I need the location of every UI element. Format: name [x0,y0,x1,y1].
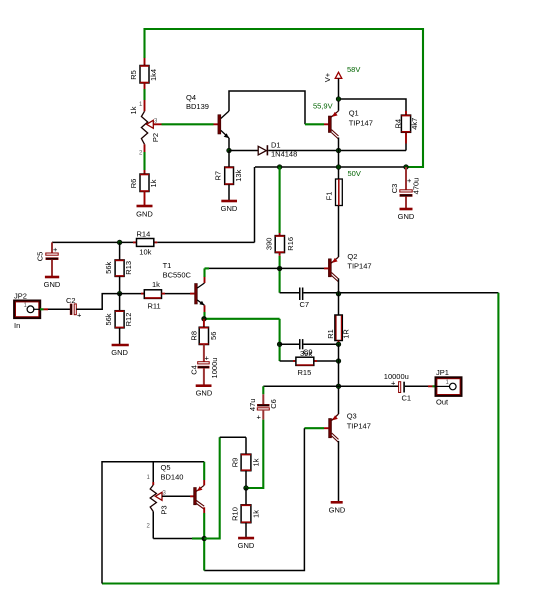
wire 50V rail [255,166,406,168]
node T1 emitter [202,317,207,322]
svg-text:10k: 10k [139,248,151,257]
wire C7 row [280,292,499,294]
svg-text:+: + [257,413,262,422]
svg-text:F1: F1 [325,192,334,201]
svg-text:R12: R12 [124,313,133,327]
transistor Q5 BD140 [161,463,205,509]
ground under R7 [221,201,238,213]
svg-text:Q5: Q5 [161,463,171,472]
ground under C5 [44,277,61,289]
svg-text:T1: T1 [163,261,172,270]
svg-text:+: + [53,245,58,254]
wire P3 bottom [153,512,204,539]
svg-text:1k: 1k [152,280,160,289]
svg-text:58V: 58V [347,65,360,74]
fuse F1 [325,179,343,206]
wire T1 emitter down [204,305,206,319]
capacitor C3 [390,167,421,208]
wire P2 wiper to Q4 base [162,123,219,125]
wire R15 row [280,360,339,362]
ground under R6 [136,206,153,219]
svg-text:C3: C3 [390,184,399,194]
svg-text:R14: R14 [137,230,151,239]
svg-text:GND: GND [44,280,61,289]
svg-text:R8: R8 [190,331,199,341]
svg-text:R11: R11 [148,302,161,311]
supply symbol V+ [323,72,342,82]
wire output row [263,385,435,387]
svg-text:Q4: Q4 [186,93,196,102]
svg-text:C6: C6 [269,399,278,409]
resistor R12 [104,294,133,344]
resistor R14 [137,230,154,257]
svg-text:470u: 470u [412,178,421,195]
node Q5 collector [202,536,207,541]
svg-text:1k: 1k [252,510,261,518]
wire P3 wiper to Q5 base [162,495,194,497]
wire R16 column green [279,167,281,236]
svg-text:GND: GND [111,348,128,357]
svg-text:55,9V: 55,9V [313,102,333,111]
transistor Q2 TIP147 [328,252,371,282]
svg-text:R16: R16 [286,237,295,251]
node T1 base divider [117,291,122,296]
node R15 right [336,359,341,364]
node V+ junction [336,97,341,102]
resistor R5 [129,58,158,89]
node C3 top [404,165,409,170]
wire P3 top [152,462,154,485]
node R13 top [117,240,122,245]
wire Q5 emitter up [203,462,205,486]
wire T1 emitter feedback column [204,319,280,361]
node R1 bottom [336,342,341,347]
svg-text:BD139: BD139 [186,102,209,111]
node D1 cathode / Q1 collector [336,148,341,153]
wire D1 anode [229,150,258,152]
svg-text:D1: D1 [271,141,281,150]
resistor R7 [214,151,244,201]
svg-text:C2: C2 [66,296,76,305]
connector JP2 [14,292,40,331]
wire JP2 to C2 [40,308,70,310]
svg-text:C9: C9 [303,348,313,357]
wire Q3 emitter to ground [338,441,340,501]
svg-text:4k7: 4k7 [410,118,419,130]
resistor R16 [265,236,296,253]
resistor R8 [190,319,219,345]
wire T1 collector to Q2 base [205,267,329,269]
wire output right loop [102,293,498,584]
svg-text:Q1: Q1 [349,109,359,118]
wire output column [338,344,340,414]
capacitor C7 [299,288,309,310]
wire Q4 collector to Q1 base [229,91,328,124]
svg-text:C7: C7 [300,300,310,309]
wire left bias loop [102,462,204,584]
svg-text:C1: C1 [402,394,412,403]
wire R5 to P2 [143,89,145,111]
svg-text:47u: 47u [248,399,257,412]
node R16 feed [277,165,282,170]
svg-text:TIP147: TIP147 [349,119,373,128]
transistor Q3 TIP147 [329,412,371,443]
svg-text:50V: 50V [348,169,361,178]
svg-text:Out: Out [436,398,449,407]
resistor R10 [231,488,261,537]
svg-text:GND: GND [329,506,346,515]
capacitor C9 [299,339,313,358]
node Q2 base junction [277,266,282,271]
wire C2 to divider [76,294,119,310]
svg-text:1000u: 1000u [210,358,219,379]
svg-text:Q2: Q2 [347,252,357,261]
wire T1 collector up [204,268,206,283]
resistor R4 [394,115,420,132]
wire Q2 emitter to R1 [338,279,340,316]
wire C6 bottom green [246,420,263,488]
transistor T1 BC550C [163,261,205,305]
ground under R10 [238,538,255,550]
wire Q1 emitter column [338,138,340,180]
node R9 R10 [244,486,249,491]
node Q2 emitter [336,292,341,297]
resistor R1 [326,315,351,344]
svg-text:R15: R15 [298,368,312,377]
wire C9 row [280,343,339,345]
svg-text:13k: 13k [234,169,243,181]
svg-text:JP1: JP1 [436,368,449,377]
ground under C4 [196,386,213,398]
wire top supply green loop [145,29,424,167]
wire Q5 collector down [203,507,205,570]
svg-text:1k: 1k [252,458,261,466]
resistor R9 [231,437,261,488]
svg-text:R5: R5 [129,70,138,80]
wire R16 bottom green [279,253,281,293]
svg-text:V+: V+ [323,72,332,82]
svg-text:P2: P2 [151,133,160,142]
svg-text:+: + [77,311,82,320]
capacitor C4 [189,345,219,386]
capacitor C6 [248,386,278,421]
resistor R11 [120,280,195,311]
svg-text:TIP147: TIP147 [347,262,371,271]
transistor Q1 TIP147 [328,109,372,140]
svg-text:BC550C: BC550C [163,271,192,280]
wire P2 to R6 [144,144,146,174]
svg-text:56k: 56k [104,262,113,274]
node Q4 emitter / D1 anode [227,148,232,153]
wire Q4 emitter down [228,138,230,151]
svg-text:P3: P3 [160,505,169,514]
svg-text:10000u: 10000u [384,372,409,381]
wire Q5 node to R9 [204,437,246,538]
svg-text:GND: GND [238,541,255,550]
svg-text:1k: 1k [129,106,138,114]
svg-text:R10: R10 [231,507,240,521]
wire D1 cathode to R4 [268,132,406,150]
resistor R13 [104,242,133,293]
svg-text:390: 390 [265,238,274,251]
svg-text:JP2: JP2 [14,292,27,301]
transistor Q4 BD139 [186,93,229,138]
svg-text:In: In [14,321,20,330]
svg-text:GND: GND [196,389,213,398]
capacitor C5 [36,242,59,276]
svg-text:GND: GND [398,212,415,221]
connector JP1 [436,368,462,407]
node feedback C9 [277,342,282,347]
wire R14 row [52,167,255,242]
svg-text:1R: 1R [342,329,351,339]
svg-text:56k: 56k [104,313,113,325]
svg-text:TIP147: TIP147 [347,422,371,431]
ground under C3 [398,209,415,221]
resistor R15 [296,357,314,377]
node output [336,384,341,389]
svg-text:BD140: BD140 [161,473,184,482]
svg-text:C5: C5 [36,252,45,262]
node F1 top [336,165,341,170]
diode D1 1N4148 [258,141,297,159]
svg-text:1k: 1k [149,179,158,187]
resistor R6 [129,174,158,205]
capacitor C2 [66,296,82,320]
ground under R12 [111,345,129,357]
wire V+ node [339,78,407,115]
svg-text:56: 56 [209,332,218,340]
svg-text:C4: C4 [189,365,198,375]
trimmer P2 [129,102,162,157]
svg-text:R7: R7 [214,171,223,181]
svg-text:R9: R9 [231,458,240,468]
ground under Q3 [329,502,346,514]
svg-text:Q3: Q3 [347,412,357,421]
svg-text:R13: R13 [124,261,133,275]
svg-text:1k4: 1k4 [149,69,158,81]
svg-text:GND: GND [136,210,153,219]
svg-text:GND: GND [221,204,238,213]
capacitor C1 [384,372,411,403]
svg-text:R4: R4 [394,119,403,129]
wire Q3 base [204,428,328,570]
trimmer P3 [147,475,169,530]
svg-text:R6: R6 [129,179,138,189]
svg-text:+: + [205,354,210,363]
wire F1 to Q2 [338,206,340,258]
svg-text:R1: R1 [326,329,335,339]
